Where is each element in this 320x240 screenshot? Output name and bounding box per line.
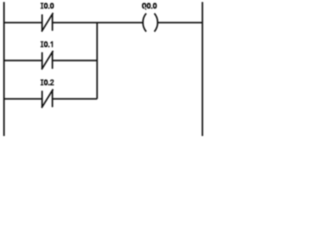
contact I0.0 (NC) xyxy=(42,13,54,32)
label I0.1 xyxy=(41,41,53,47)
wire rung1 middle segment xyxy=(53,22,143,24)
contact I0.2 (NC) xyxy=(42,89,54,108)
wire rung3 left segment xyxy=(4,98,42,100)
label I0.2 xyxy=(41,79,54,85)
label I0.0 xyxy=(41,3,54,9)
right power rail xyxy=(201,2,203,136)
left power rail xyxy=(3,2,5,136)
contact I0.1 (NC) xyxy=(42,51,54,70)
coil Q0.0 xyxy=(143,13,158,31)
wire rung2 left segment xyxy=(4,60,42,62)
wire branch junction vertical xyxy=(96,23,98,99)
label Q0.0 xyxy=(142,3,157,10)
wire rung1 right segment xyxy=(158,22,203,24)
wire rung2 right segment xyxy=(53,60,97,62)
wire rung3 right segment xyxy=(53,98,97,100)
wire rung1 left segment xyxy=(4,22,42,24)
